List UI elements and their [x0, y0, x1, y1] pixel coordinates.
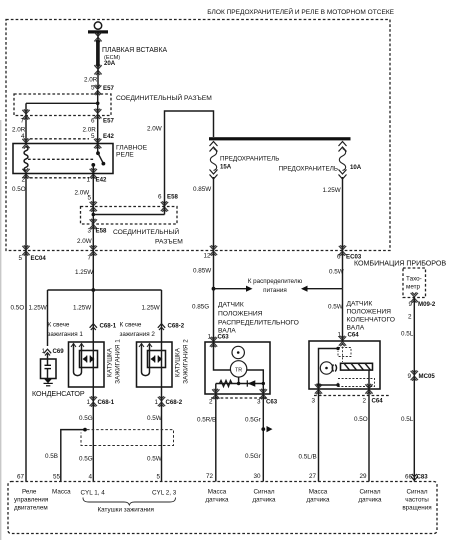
svg-text:0.85W: 0.85W	[193, 186, 211, 193]
ignition coil 2 box	[137, 342, 173, 387]
ECM sensor signal 2 label	[358, 489, 382, 504]
svg-text:5: 5	[156, 474, 160, 481]
svg-text:C64: C64	[372, 398, 384, 405]
svg-text:2.0R: 2.0R	[84, 77, 98, 84]
svg-text:0.85W: 0.85W	[193, 268, 211, 275]
wire crankshaft signal to ECM	[368, 389, 370, 482]
node junction in box1	[96, 102, 100, 106]
svg-text:0.5G: 0.5G	[79, 456, 93, 463]
connector X camshaft pin 3	[260, 389, 267, 399]
connector 1 C68-2	[154, 396, 182, 406]
connector E42 dashed pin line bottom	[30, 177, 89, 179]
svg-text:датчика: датчика	[205, 497, 229, 504]
camshaft sensor resistor	[220, 381, 233, 387]
relay switch contact	[91, 151, 105, 173]
svg-text:72: 72	[206, 473, 214, 480]
ECM relay control label	[14, 489, 48, 512]
svg-text:0.5Gr: 0.5Gr	[245, 453, 261, 460]
svg-text:Реле: Реле	[22, 489, 37, 496]
svg-text:КАТУШКА: КАТУШКА	[175, 347, 182, 377]
wire horizontal in box1	[26, 102, 98, 104]
svg-text:C69: C69	[53, 348, 65, 355]
pin 5 E42 label	[91, 133, 114, 140]
wire camshaft signal to ECM	[262, 394, 264, 482]
svg-text:3: 3	[257, 399, 261, 406]
fuse 2 chevrons bottom	[339, 170, 347, 180]
wire riser E58 to bus	[165, 111, 214, 215]
svg-text:29: 29	[359, 473, 367, 480]
svg-text:1.25W: 1.25W	[142, 305, 160, 312]
svg-text:C68-1: C68-1	[100, 323, 117, 330]
svg-text:E58: E58	[96, 228, 107, 235]
wire ignition feed horizontal	[48, 289, 162, 291]
crankshaft sensor pickup coil	[341, 363, 373, 370]
ignition coil 1 rotated label	[107, 339, 122, 384]
crankshaft sensor label	[347, 301, 395, 332]
svg-text:C63: C63	[266, 399, 278, 406]
power distribution label	[248, 278, 303, 294]
svg-text:0.5W: 0.5W	[147, 456, 162, 463]
camshaft sensor TR circle	[230, 361, 246, 377]
main relay box	[13, 144, 113, 174]
connector X box1 bottom left pin 7	[22, 109, 29, 119]
svg-text:7: 7	[87, 255, 91, 262]
svg-text:2: 2	[362, 398, 366, 405]
connector 1 C64	[337, 332, 359, 346]
power bus bar	[209, 137, 351, 140]
battery terminal circle	[94, 22, 101, 29]
connector X box1 bottom right 6 E57	[91, 109, 114, 125]
wire E57 to relay	[97, 116, 99, 154]
connector E42 dashed pin line top	[30, 138, 89, 140]
svg-text:30: 30	[253, 473, 261, 480]
svg-text:2: 2	[209, 399, 213, 406]
svg-text:РЕЛЕ: РЕЛЕ	[116, 151, 134, 158]
svg-text:C68-2: C68-2	[166, 399, 183, 406]
svg-text:датчика: датчика	[306, 497, 330, 504]
connector 66 C83	[405, 474, 428, 481]
svg-text:1.25W: 1.25W	[323, 187, 341, 194]
svg-text:Сигнал: Сигнал	[253, 489, 274, 496]
svg-text:2: 2	[21, 177, 25, 184]
svg-text:6: 6	[91, 117, 95, 124]
svg-text:ДАТЧИК: ДАТЧИК	[218, 302, 244, 309]
pin 3 C63 label	[257, 399, 278, 406]
svg-text:датчика: датчика	[252, 497, 276, 504]
node ignition feed junction	[91, 288, 95, 292]
svg-text:ПЛАВКАЯ ВСТАВКА: ПЛАВКАЯ ВСТАВКА	[102, 47, 167, 54]
wire relay pin1 down	[92, 174, 94, 291]
svg-text:питания: питания	[263, 287, 287, 294]
svg-text:Масса: Масса	[208, 489, 227, 496]
connector X 6 E58 top right	[158, 194, 178, 212]
connector C68-2 chevron	[158, 323, 185, 331]
svg-text:двигателем: двигателем	[14, 505, 48, 512]
svg-text:EC04: EC04	[31, 255, 47, 262]
svg-text:ПРЕДОХРАНИТЕЛЬ: ПРЕДОХРАНИТЕЛЬ	[279, 166, 338, 173]
svg-text:MC05: MC05	[419, 373, 436, 380]
wire left branch down	[25, 103, 27, 143]
crankshaft sensor magnet circle	[320, 362, 336, 374]
spark plug 1 label	[48, 322, 84, 339]
svg-text:1: 1	[207, 334, 211, 341]
shield dashed loop	[81, 430, 174, 446]
spark plug 2 label	[120, 322, 156, 339]
svg-text:0.5R/B: 0.5R/B	[197, 417, 216, 424]
connector X camshaft pin 2	[212, 389, 219, 399]
engine bay fuse/relay block dashed box	[6, 20, 390, 251]
connector X relay pin 4	[22, 138, 29, 148]
svg-text:E57: E57	[103, 85, 114, 92]
svg-text:Сигнал: Сигнал	[359, 489, 380, 496]
crankshaft sensor box	[309, 341, 380, 389]
connector 9 MC05	[407, 370, 435, 380]
wire arrow to power distribution left	[214, 286, 253, 292]
svg-text:0.5W: 0.5W	[328, 304, 343, 311]
svg-text:частоты: частоты	[405, 497, 429, 504]
joint connector box 2 (E58)	[81, 207, 178, 225]
connector 9 M09-2	[408, 292, 435, 308]
wire condenser branch	[47, 290, 49, 346]
connector X E58 top left	[90, 201, 97, 211]
ignition coil 1 box	[69, 342, 105, 387]
svg-text:К свече: К свече	[48, 322, 70, 329]
svg-text:К распределителю: К распределителю	[248, 278, 303, 285]
svg-text:1.25W: 1.25W	[75, 269, 93, 276]
ignition coil 2 igniter box	[148, 351, 166, 368]
svg-text:0.85G: 0.85G	[192, 304, 209, 311]
svg-text:0.5O: 0.5O	[12, 186, 26, 193]
pin 2 C64 label	[362, 398, 383, 405]
svg-text:0.5W: 0.5W	[147, 415, 162, 422]
ground condenser	[44, 379, 53, 386]
svg-text:ЗАЖИГАНИЯ 1: ЗАЖИГАНИЯ 1	[115, 339, 122, 384]
connector X relay pin 5	[94, 138, 101, 148]
svg-text:5: 5	[87, 195, 91, 202]
camshaft sensor rotor circle	[232, 346, 244, 358]
wire relay pin2 down left rail	[25, 174, 27, 482]
connector 1 C69 chevron	[41, 348, 64, 356]
node camshaft feed junction	[212, 287, 216, 291]
svg-text:2.0W: 2.0W	[77, 238, 92, 245]
ignition coil 1 secondary loop	[74, 344, 82, 376]
svg-text:1: 1	[154, 399, 158, 406]
svg-text:6: 6	[337, 254, 341, 261]
condenser box	[41, 359, 57, 379]
svg-text:КОЛЕНЧАТОГО: КОЛЕНЧАТОГО	[347, 317, 395, 324]
camshaft sensor label	[218, 302, 299, 335]
wire crankshaft sensor feed	[342, 289, 344, 341]
relay coil	[24, 147, 28, 172]
main relay label	[116, 144, 148, 158]
relay armature dashed link	[28, 158, 95, 160]
fuse 1 connector chevrons top	[210, 142, 218, 152]
svg-text:E42: E42	[96, 177, 107, 184]
connector X crankshaft pin 2	[365, 384, 372, 394]
svg-text:датчика: датчика	[358, 497, 382, 504]
ignition coil 2 rotated label	[175, 339, 190, 384]
svg-text:КАТУШКА: КАТУШКА	[107, 347, 114, 377]
svg-text:20A: 20A	[104, 60, 116, 67]
svg-text:0.5L: 0.5L	[401, 331, 414, 338]
svg-text:0.5L/B: 0.5L/B	[299, 454, 317, 461]
fuse 2 element 10A	[339, 149, 345, 171]
svg-text:0.5B: 0.5B	[45, 453, 58, 460]
svg-text:TR: TR	[235, 367, 242, 373]
wire fuse2 down	[342, 177, 344, 289]
joint connector box 1 (E57)	[14, 94, 111, 116]
svg-text:0.5Gr: 0.5Gr	[245, 417, 261, 424]
svg-text:ГЛАВНОЕ: ГЛАВНОЕ	[116, 144, 148, 151]
wire tachometer down	[413, 298, 415, 482]
svg-text:C63: C63	[218, 334, 230, 341]
wire coil1 branch	[92, 290, 94, 342]
svg-text:CYL 2, 3: CYL 2, 3	[152, 490, 177, 497]
svg-text:9: 9	[407, 373, 411, 380]
svg-text:ДАТЧИК: ДАТЧИК	[347, 301, 373, 308]
camshaft sensor internal wiring	[214, 342, 264, 394]
svg-text:зажигания 2: зажигания 2	[120, 331, 156, 338]
svg-text:67: 67	[17, 474, 25, 481]
connector C63 dashed line	[211, 397, 268, 399]
crankshaft sensor shield dashed top	[338, 343, 351, 362]
fuse 2 label	[279, 164, 362, 173]
svg-text:CYL 1, 4: CYL 1, 4	[81, 490, 106, 497]
wire camshaft ground to ECM	[215, 394, 217, 482]
svg-text:К свече: К свече	[120, 322, 142, 329]
svg-text:55: 55	[53, 474, 61, 481]
joint connector box 2 label	[113, 227, 183, 246]
svg-text:C64: C64	[348, 332, 360, 339]
svg-text:1: 1	[86, 177, 90, 184]
ignition coil 2 main wire through	[161, 342, 163, 387]
svg-text:ПОЛОЖЕНИЯ: ПОЛОЖЕНИЯ	[218, 311, 263, 318]
svg-text:2: 2	[408, 314, 412, 321]
wire camshaft sensor feed	[213, 289, 215, 342]
node signal shield junction with arrow	[261, 426, 272, 432]
svg-text:C68-1: C68-1	[98, 399, 115, 406]
ECM sensor signal 1 label	[252, 489, 276, 504]
svg-text:2.0W: 2.0W	[147, 126, 162, 133]
svg-text:7: 7	[20, 117, 24, 124]
connector X below link	[94, 65, 101, 75]
svg-text:СОЕДИНИТЕЛЬНЫЙ: СОЕДИНИТЕЛЬНЫЙ	[113, 227, 179, 236]
fuse 1 element 15A	[210, 149, 216, 171]
tachometer dashed box	[403, 268, 426, 298]
svg-text:ПОЛОЖЕНИЯ: ПОЛОЖЕНИЯ	[347, 309, 392, 316]
camshaft sensor box	[205, 342, 270, 394]
svg-text:ВАЛА: ВАЛА	[347, 325, 365, 332]
connector X relay pin 1	[90, 168, 97, 178]
svg-text:Масса: Масса	[52, 489, 71, 496]
svg-text:9: 9	[408, 301, 412, 308]
fusible link label	[102, 47, 167, 67]
connector X 3 E58 bottom	[87, 219, 106, 235]
crankshaft sensor bottom wire	[317, 383, 340, 389]
ECM sensor ground 2 label	[306, 489, 330, 504]
svg-text:ПРЕДОХРАНИТЕЛЬ: ПРЕДОХРАНИТЕЛЬ	[220, 156, 279, 163]
svg-text:Масса: Масса	[309, 489, 328, 496]
svg-text:0.5W: 0.5W	[329, 269, 344, 276]
crankshaft sensor shield dashed bottom	[338, 379, 375, 387]
wire link to E57	[97, 34, 99, 90]
ignition coil 1 igniter box	[80, 351, 98, 368]
svg-text:6: 6	[158, 194, 162, 201]
svg-text:12: 12	[203, 253, 211, 260]
svg-text:РАЗЪЕМ: РАЗЪЕМ	[155, 239, 183, 246]
crankshaft sensor coil output wire	[368, 370, 370, 389]
node camshaft bottom junctions	[237, 382, 265, 385]
svg-text:0.5O: 0.5O	[11, 305, 25, 312]
fuse 1 chevrons bottom	[210, 170, 218, 180]
svg-text:управления: управления	[14, 497, 48, 504]
ignition coil 2 igniter elements	[151, 356, 163, 363]
ECM dashed box	[8, 482, 437, 534]
svg-text:10A: 10A	[350, 164, 362, 171]
wire horizontal in box2	[93, 214, 164, 216]
svg-text:КОМБИНАЦИЯ ПРИБОРОВ: КОМБИНАЦИЯ ПРИБОРОВ	[354, 260, 446, 268]
pin 1 E42 label	[86, 177, 106, 184]
svg-text:3: 3	[311, 398, 315, 405]
svg-text:Сигнал: Сигнал	[406, 489, 427, 496]
ignition coil 2 secondary chevrons	[139, 344, 152, 348]
connector C64 dashed line	[314, 395, 390, 397]
svg-text:C83: C83	[417, 474, 429, 481]
connector 1 C68-1	[86, 396, 114, 406]
connector 5 E57	[91, 84, 114, 95]
shield ground wire	[61, 430, 85, 482]
svg-text:1.25W: 1.25W	[29, 305, 47, 312]
svg-text:E57: E57	[103, 117, 114, 124]
wire arrow to power distribution right	[301, 286, 343, 292]
svg-text:C68-2: C68-2	[168, 323, 185, 330]
svg-text:E42: E42	[103, 133, 114, 140]
ignition coil 1 main wire through	[92, 342, 94, 387]
connector X 5 EC04	[18, 245, 46, 262]
ECM speed signal label	[402, 489, 431, 512]
svg-text:0.5O: 0.5O	[354, 416, 368, 423]
svg-text:1.25W: 1.25W	[73, 305, 91, 312]
wire coil2 branch	[161, 290, 163, 342]
svg-text:4: 4	[88, 474, 92, 481]
svg-text:СОЕДИНИТЕЛЬНЫЙ РАЗЪЕМ: СОЕДИНИТЕЛЬНЫЙ РАЗЪЕМ	[116, 93, 212, 102]
battery bus bar	[88, 30, 108, 33]
svg-text:БЛОК ПРЕДОХРАНИТЕЛЕЙ И РЕЛЕ В: БЛОК ПРЕДОХРАНИТЕЛЕЙ И РЕЛЕ В МОТОРНОМ О…	[207, 7, 394, 16]
svg-text:метр: метр	[406, 284, 421, 291]
svg-text:ЗАЖИГАНИЯ 2: ЗАЖИГАНИЯ 2	[183, 339, 190, 384]
connector C68-1 chevron	[90, 323, 117, 331]
shield ground node	[83, 428, 87, 432]
wire coil2 to ECM	[161, 387, 163, 482]
ignition coil 1 secondary chevrons	[71, 344, 84, 348]
connector X 6 EC03	[337, 245, 362, 260]
crankshaft sensor internal left wire	[319, 347, 340, 385]
connector X crankshaft pin 3	[315, 384, 322, 394]
svg-text:5: 5	[18, 255, 22, 262]
scan edge artifact left	[0, 120, 1, 540]
wire coil1 to ECM	[92, 387, 94, 482]
fusible link (ECM) 20A thick element	[96, 40, 100, 66]
wire fuse1 down	[213, 177, 215, 289]
wire into box1	[97, 90, 99, 116]
node junction in box2	[92, 213, 96, 217]
ignition coil 1 igniter elements	[83, 356, 95, 363]
svg-text:0.5G: 0.5G	[79, 415, 93, 422]
ECM sensor ground 1 label	[205, 489, 229, 504]
svg-text:E58: E58	[167, 194, 178, 201]
ignition coils brace	[83, 498, 176, 506]
tachometer label	[406, 276, 422, 291]
ignition coil 2 secondary loop	[142, 344, 150, 376]
condenser element	[45, 354, 52, 379]
connector X pin 7 crossing	[87, 245, 97, 261]
svg-text:3: 3	[87, 228, 91, 235]
connector X below bar	[94, 32, 101, 42]
svg-text:Тахо-: Тахо-	[406, 276, 422, 283]
wire crankshaft ground to ECM	[318, 389, 320, 482]
svg-text:1: 1	[86, 399, 90, 406]
svg-text:0.5L: 0.5L	[401, 416, 414, 423]
svg-text:зажигания 1: зажигания 1	[48, 331, 84, 338]
connector 1 C63	[207, 334, 229, 348]
svg-text:Катушки зажигания: Катушки зажигания	[98, 507, 154, 514]
fuse 1 label	[220, 156, 279, 171]
svg-text:вращения: вращения	[402, 505, 431, 512]
svg-text:КОНДЕНСАТОР: КОНДЕНСАТОР	[32, 390, 85, 398]
connector X relay pin 2	[22, 168, 29, 178]
svg-text:27: 27	[309, 473, 317, 480]
svg-text:M09-2: M09-2	[418, 301, 436, 308]
svg-text:15A: 15A	[220, 164, 232, 171]
svg-text:РАСПРЕДЕЛИТЕЛЬНОГО: РАСПРЕДЕЛИТЕЛЬНОГО	[218, 320, 299, 327]
fuse 2 connector chevrons top	[339, 142, 347, 152]
connector X pin 12 crossing	[203, 245, 217, 259]
camshaft sensor diode	[247, 380, 255, 386]
